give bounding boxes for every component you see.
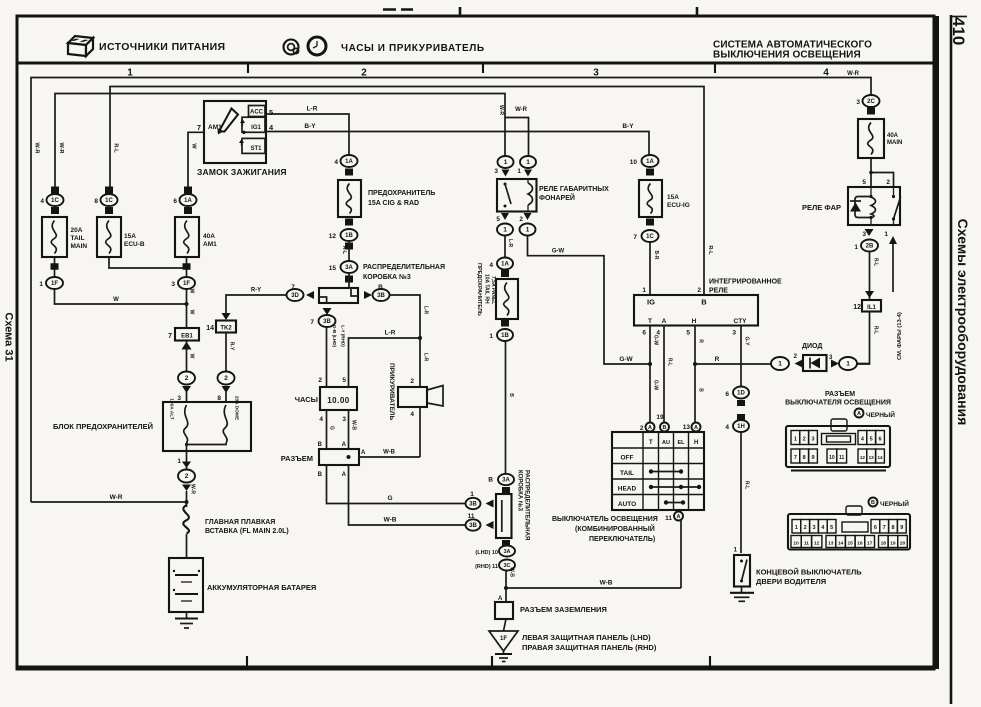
svg-text:R: R	[715, 356, 720, 363]
svg-text:А: А	[857, 411, 861, 417]
wire W-R top bus A	[31, 78, 871, 503]
door switch box	[734, 555, 750, 587]
svg-text:6: 6	[642, 330, 646, 337]
svg-text:3: 3	[342, 416, 346, 423]
svg-text:12: 12	[329, 233, 337, 240]
svg-text:(LHD) 10: (LHD) 10	[475, 550, 498, 556]
wire to fusible link	[186, 491, 188, 507]
svg-text:L-R: L-R	[307, 106, 318, 113]
svg-text:2: 2	[804, 525, 807, 531]
parking lamps relay box	[497, 179, 537, 212]
junction dot ecub-am1	[185, 266, 189, 270]
svg-text:1: 1	[526, 227, 530, 234]
svg-text:R: R	[698, 339, 704, 343]
wire IL1 to diode	[855, 312, 870, 365]
svg-text:3: 3	[732, 330, 736, 337]
wire tail top bus C	[55, 94, 505, 195]
svg-text:A: A	[694, 425, 698, 431]
fuse 10A TAIL RH box	[496, 279, 518, 319]
svg-text:CTY: CTY	[734, 318, 748, 325]
svg-text:OFF: OFF	[621, 455, 634, 462]
top frame dash a	[383, 8, 396, 11]
svg-text:L-Y (RHD): L-Y (RHD)	[341, 325, 346, 347]
svg-text:9: 9	[900, 525, 903, 531]
svg-text:A: A	[662, 318, 667, 325]
svg-text:AUTO: AUTO	[618, 501, 636, 508]
top frame dash b	[401, 8, 413, 11]
svg-text:1B: 1B	[501, 333, 509, 339]
battery plates	[175, 574, 198, 576]
connector 1-2B oval	[861, 240, 878, 252]
diode D1 box	[803, 355, 827, 371]
svg-text:H: H	[694, 440, 698, 446]
svg-text:5: 5	[830, 525, 833, 531]
svg-text:R-L: R-L	[744, 481, 750, 489]
svg-text:3D: 3D	[291, 293, 299, 299]
svg-text:2: 2	[185, 473, 189, 480]
svg-text:3: 3	[812, 525, 815, 531]
wire to ground connector	[505, 571, 507, 603]
lighter cone	[427, 386, 443, 407]
svg-text:W-R: W-R	[498, 105, 504, 115]
connector 6-1D oval	[733, 387, 749, 399]
svg-text:2: 2	[410, 378, 414, 385]
svg-text:1C: 1C	[51, 198, 59, 204]
svg-text:3: 3	[856, 99, 860, 106]
svg-text:1: 1	[503, 227, 507, 234]
svg-text:6: 6	[173, 198, 177, 205]
parking relay oval pin1	[520, 156, 536, 168]
svg-text:3A: 3A	[345, 265, 353, 271]
junction dot LR	[418, 336, 422, 340]
svg-text:G-Y: G-Y	[744, 337, 750, 347]
svg-text:B: B	[698, 388, 704, 392]
svg-text:ПРИКУРИВАТЕЛЬ: ПРИКУРИВАТЕЛЬ	[388, 363, 395, 420]
ignition ST1 pin box	[242, 138, 265, 153]
table auto row contact	[666, 502, 683, 504]
connector 3-1F oval	[178, 277, 195, 289]
svg-text:КОРОБКА №3: КОРОБКА №3	[517, 470, 524, 512]
svg-text:1: 1	[794, 437, 797, 443]
svg-text:1: 1	[489, 333, 493, 340]
svg-text:ЧАСЫ: ЧАСЫ	[295, 395, 318, 404]
connector B black label	[869, 498, 878, 507]
svg-text:G-W: G-W	[653, 380, 659, 391]
svg-text:15A: 15A	[667, 194, 679, 201]
svg-text:ИНТЕГРИРОВАННОЕ: ИНТЕГРИРОВАННОЕ	[709, 279, 782, 286]
svg-text:14: 14	[838, 540, 844, 546]
svg-text:10: 10	[829, 455, 835, 461]
svg-text:ПЕРЕКЛЮЧАТЕЛЬ): ПЕРЕКЛЮЧАТЕЛЬ)	[589, 536, 655, 543]
wire AM1 to fuse	[188, 132, 204, 194]
fuse block internal link	[187, 443, 227, 445]
svg-text:W-R: W-R	[110, 494, 123, 501]
svg-text:БЛОК ПРЕДОХРАНИТЕЛЕЙ: БЛОК ПРЕДОХРАНИТЕЛЕЙ	[53, 422, 153, 431]
svg-text:6: 6	[725, 391, 729, 398]
wire clock pin3 down	[348, 410, 350, 449]
svg-text:W-R: W-R	[190, 484, 196, 494]
svg-text:A: A	[342, 442, 347, 448]
connector 4-1A oval cig	[341, 155, 358, 167]
svg-text:TAIL: TAIL	[71, 235, 85, 242]
svg-text:2: 2	[886, 179, 890, 186]
wire 1B to 3A	[348, 241, 350, 261]
svg-text:ACC: ACC	[250, 110, 264, 116]
svg-text:W-R: W-R	[515, 107, 528, 113]
wire W-R bottom link	[31, 501, 187, 503]
svg-text:20A: 20A	[71, 227, 83, 234]
svg-text:8: 8	[94, 198, 98, 205]
svg-text:СМ. ФАРЫ (13-4): СМ. ФАРЫ (13-4)	[897, 312, 903, 360]
svg-text:4: 4	[725, 424, 729, 431]
svg-text:G-W: G-W	[653, 335, 659, 346]
svg-text:13: 13	[869, 455, 875, 460]
light switch table	[612, 432, 704, 510]
svg-text:W: W	[189, 289, 195, 294]
connector 8-1C oval	[105, 187, 113, 194]
svg-text:B: B	[318, 472, 323, 478]
wire CTY down	[740, 326, 742, 387]
ignition IG1 pin box	[242, 117, 265, 132]
svg-text:12: 12	[814, 540, 820, 546]
svg-text:4: 4	[319, 416, 323, 423]
svg-text:16: 16	[857, 540, 863, 546]
wire into fuse block right	[225, 392, 227, 402]
svg-text:19: 19	[890, 540, 896, 546]
svg-text:КОНЦЕВОЙ ВЫКЛЮЧАТЕЛЬ: КОНЦЕВОЙ ВЫКЛЮЧАТЕЛЬ	[756, 568, 862, 577]
svg-text:R-Y: R-Y	[229, 342, 235, 351]
battery feed oval 2	[182, 462, 191, 469]
svg-text:В: В	[871, 500, 875, 506]
svg-text:410: 410	[949, 17, 968, 45]
battery header icon	[68, 36, 93, 56]
connector 7-1C oval	[646, 219, 654, 226]
svg-text:1: 1	[795, 525, 798, 531]
svg-text:11: 11	[839, 455, 845, 461]
svg-text:ЧАСЫ И ПРИКУРИВАТЕЛЬ: ЧАСЫ И ПРИКУРИВАТЕЛЬ	[341, 43, 485, 54]
page separator line	[950, 15, 953, 704]
svg-text:18: 18	[881, 540, 887, 546]
ruler tick b	[482, 64, 484, 73]
wire R to diode	[695, 363, 771, 365]
svg-text:20: 20	[900, 540, 906, 546]
svg-text:2: 2	[318, 377, 322, 384]
connector B cells row1	[792, 520, 801, 534]
svg-text:3B: 3B	[377, 293, 385, 299]
svg-text:W: W	[113, 297, 119, 303]
svg-text:3B: 3B	[469, 502, 477, 508]
svg-text:11: 11	[804, 540, 809, 546]
svg-text:W-B: W-B	[600, 580, 613, 587]
svg-text:13: 13	[683, 424, 691, 431]
battery ground	[186, 612, 188, 618]
svg-text:R-L: R-L	[341, 246, 347, 254]
svg-text:ПРАВАЯ ЗАЩИТНАЯ ПАНЕЛЬ (RHD): ПРАВАЯ ЗАЩИТНАЯ ПАНЕЛЬ (RHD)	[522, 643, 657, 652]
clock header icon	[308, 37, 326, 55]
wire square to panel triangle	[504, 619, 507, 631]
svg-text:19: 19	[656, 414, 664, 421]
svg-text:3: 3	[811, 437, 814, 443]
headlight relay box	[848, 187, 900, 225]
distribution box 3 lower	[496, 494, 512, 538]
svg-text:8: 8	[891, 525, 894, 531]
svg-text:15A: 15A	[124, 233, 136, 240]
connector 4-1H oval	[733, 420, 749, 432]
svg-text:КОРОБКА №3: КОРОБКА №3	[363, 273, 411, 281]
wire 3B to lighter drop	[389, 295, 421, 387]
wire 3A into box	[348, 273, 350, 288]
wire EB1 to fuse block	[186, 341, 188, 372]
svg-text:15: 15	[329, 265, 337, 272]
headlight relay coil	[871, 197, 876, 218]
ruler tick a	[247, 64, 249, 73]
svg-text:40A: 40A	[887, 133, 899, 139]
svg-text:HEAD: HEAD	[618, 486, 637, 493]
svg-text:T: T	[648, 318, 652, 325]
svg-text:3: 3	[862, 231, 866, 238]
arrow below oval2L	[182, 386, 191, 393]
svg-text:7: 7	[168, 333, 172, 340]
svg-text:8: 8	[803, 455, 806, 461]
svg-text:13: 13	[828, 540, 834, 546]
connector 4-1A tail oval	[497, 258, 513, 270]
wire fuse main to relay	[870, 158, 872, 187]
svg-text:ПРЕДОХРАНИТЕЛЬ: ПРЕДОХРАНИТЕЛЬ	[368, 190, 435, 197]
connector 12-1B oval	[345, 219, 353, 226]
svg-text:B: B	[663, 425, 667, 431]
junction dot battery bus	[185, 500, 189, 504]
svg-text:РАСПРЕДЕЛИТЕЛЬНАЯ: РАСПРЕДЕЛИТЕЛЬНАЯ	[363, 264, 445, 271]
connector 7-3B oval below	[323, 308, 332, 315]
connector A cells row2	[791, 449, 800, 463]
svg-text:1B: 1B	[345, 233, 353, 239]
wire AM1 fuse down	[186, 257, 188, 277]
svg-text:2B: 2B	[866, 244, 874, 250]
wire R-Y horizontal	[226, 295, 286, 313]
svg-text:1: 1	[504, 159, 508, 166]
arrow into TK2	[222, 313, 231, 320]
svg-text:ST1: ST1	[250, 146, 262, 152]
svg-text:10.00: 10.00	[327, 396, 350, 405]
svg-text:5: 5	[496, 216, 500, 223]
svg-text:РАЗЪЕМ ЗАЗЕМЛЕНИЯ: РАЗЪЕМ ЗАЗЕМЛЕНИЯ	[520, 605, 607, 614]
svg-text:12: 12	[860, 455, 866, 460]
bottom tick c	[709, 656, 711, 668]
svg-text:B: B	[318, 442, 323, 448]
svg-text:ВЫКЛЮЧАТЕЛЯ ОСВЕЩЕНИЯ: ВЫКЛЮЧАТЕЛЯ ОСВЕЩЕНИЯ	[785, 400, 891, 407]
fuse 15A ECU-IG box	[639, 180, 662, 217]
svg-text:R-L: R-L	[873, 258, 879, 266]
svg-text:3A: 3A	[503, 549, 510, 555]
svg-text:W-B: W-B	[383, 450, 396, 456]
arrow into EB1	[182, 342, 192, 350]
connector 1-1B tail oval	[501, 320, 509, 327]
svg-text:4: 4	[489, 262, 493, 269]
svg-text:7: 7	[633, 234, 637, 241]
svg-text:10A TAIL RH: 10A TAIL RH	[484, 274, 490, 304]
svg-text:1A: 1A	[646, 159, 654, 165]
arrow below relay pin3	[865, 229, 874, 236]
svg-text:ФОНАРЕЙ: ФОНАРЕЙ	[539, 193, 575, 202]
svg-text:ИСТОЧНИКИ ПИТАНИЯ: ИСТОЧНИКИ ПИТАНИЯ	[99, 41, 225, 53]
svg-text:1: 1	[526, 159, 530, 166]
arrow below oval2R	[222, 386, 231, 393]
door switch contact	[740, 560, 743, 563]
svg-text:2: 2	[224, 375, 228, 382]
svg-text:7: 7	[883, 525, 886, 531]
svg-text:3B: 3B	[469, 523, 477, 529]
wire to headlights arrow	[892, 243, 894, 292]
wire A pin down	[663, 326, 665, 423]
svg-text:1C: 1C	[105, 198, 113, 204]
frame right inner line	[934, 16, 939, 669]
svg-text:B: B	[508, 393, 514, 397]
wire clock pin4 down	[326, 410, 328, 449]
svg-text:12: 12	[853, 304, 861, 311]
connector 15-3A oval	[341, 261, 358, 273]
battery box	[169, 558, 203, 612]
svg-text:ECU-B: ECU-B	[124, 241, 145, 248]
svg-text:ВЫКЛЮЧАТЕЛЬ ОСВЕЩЕНИЯ: ВЫКЛЮЧАТЕЛЬ ОСВЕЩЕНИЯ	[552, 516, 658, 523]
svg-text:G-B (LHD): G-B (LHD)	[332, 325, 337, 348]
lighter header icon	[284, 40, 299, 55]
wire B down to 3A	[505, 341, 507, 474]
svg-text:ECU-IG: ECU-IG	[667, 202, 690, 209]
svg-text:15: 15	[848, 540, 854, 546]
svg-text:10: 10	[793, 540, 799, 546]
svg-text:ЧЕРНЫЙ: ЧЕРНЫЙ	[866, 410, 895, 419]
svg-text:W-B: W-B	[384, 517, 397, 524]
svg-text:TK2: TK2	[220, 326, 232, 332]
svg-text:40A: 40A	[203, 233, 215, 240]
connector 3-2C oval	[863, 95, 880, 107]
svg-text:G: G	[329, 426, 335, 430]
svg-text:W-B: W-B	[509, 567, 515, 577]
svg-text:1A: 1A	[501, 262, 509, 268]
svg-text:1: 1	[177, 458, 181, 465]
wire W-B switch ground run	[506, 587, 681, 589]
connector A black label	[855, 409, 864, 418]
svg-text:B-Y: B-Y	[304, 123, 316, 130]
connector oval 2 right	[218, 372, 235, 385]
svg-text:L-R: L-R	[423, 306, 429, 315]
panel triangle 1F	[489, 631, 518, 651]
bottom tick b	[491, 656, 493, 668]
svg-text:B: B	[488, 477, 493, 484]
svg-text:MAIN: MAIN	[887, 140, 902, 146]
fusible link FL MAIN symbol	[183, 505, 189, 534]
svg-text:(КОМБИНИРОВАННЫЙ: (КОМБИНИРОВАННЫЙ	[575, 524, 655, 533]
integrated relay box	[634, 295, 758, 326]
fuse 40A MAIN box	[858, 119, 884, 158]
svg-text:B-Y: B-Y	[622, 123, 634, 130]
svg-text:5: 5	[342, 377, 346, 384]
wire diode oval to riser	[857, 363, 870, 365]
fuse block box	[163, 402, 251, 451]
parking relay oval pin3	[498, 156, 514, 168]
fuse 20A DOME element	[223, 405, 227, 443]
connector 4-1C oval	[51, 187, 59, 194]
wire fuse1 down to 1F	[54, 257, 56, 277]
ruler tick c	[714, 64, 716, 73]
svg-text:14: 14	[206, 325, 214, 332]
svg-text:MAIN: MAIN	[71, 243, 88, 250]
svg-text:1: 1	[854, 244, 858, 251]
square below lower box	[502, 540, 510, 546]
svg-text:Схема 31: Схема 31	[3, 312, 15, 361]
svg-text:ЧЕРНЫЙ: ЧЕРНЫЙ	[880, 499, 909, 508]
svg-text:1F: 1F	[500, 636, 507, 642]
svg-text:(RHD) 11: (RHD) 11	[475, 564, 498, 570]
fuse 100A ALT element	[184, 405, 188, 443]
svg-text:10: 10	[630, 159, 638, 166]
svg-text:17: 17	[867, 540, 873, 546]
panel ground symbol	[503, 651, 505, 654]
ignition switch U1 box	[204, 101, 266, 163]
svg-text:1D: 1D	[737, 391, 745, 397]
wire 1F down to EB1	[186, 289, 188, 328]
svg-text:5: 5	[269, 108, 273, 117]
svg-text:G-W: G-W	[552, 249, 565, 255]
frame bottom thick	[17, 666, 934, 671]
svg-text:4: 4	[334, 159, 338, 166]
svg-text:6: 6	[878, 437, 881, 443]
svg-text:2C: 2C	[867, 99, 875, 105]
svg-text:1: 1	[884, 231, 888, 238]
svg-text:R-Y: R-Y	[251, 288, 261, 294]
connector B cells row2	[791, 536, 801, 548]
svg-text:7: 7	[197, 123, 201, 132]
diode right oval	[839, 357, 857, 370]
bottom tick a	[246, 656, 248, 668]
fuse F1 20A TAIL MAIN box	[42, 217, 67, 257]
ignition key glyph	[219, 109, 238, 132]
svg-text:W-B: W-B	[351, 420, 357, 430]
page top right stub	[951, 16, 967, 18]
arrow into IL1	[865, 291, 874, 298]
door switch ground	[741, 587, 743, 593]
svg-text:2: 2	[185, 375, 189, 382]
svg-text:R-L: R-L	[113, 143, 119, 153]
svg-text:R-L: R-L	[667, 358, 673, 366]
headlight relay diode loop	[855, 197, 871, 218]
svg-text:ЛЕВАЯ ЗАЩИТНАЯ ПАНЕЛЬ (LHD): ЛЕВАЯ ЗАЩИТНАЯ ПАНЕЛЬ (LHD)	[522, 633, 651, 642]
svg-text:W: W	[189, 310, 195, 315]
ignition ACC pin box	[249, 106, 266, 117]
wire G-W from parking relay	[528, 236, 651, 365]
wire into fuse block left	[186, 392, 188, 402]
wire H pin down	[694, 326, 696, 423]
wire razem B down to G run	[327, 465, 466, 504]
fuse F2 15A ECU-B box	[97, 217, 121, 257]
svg-text:H: H	[692, 318, 697, 325]
svg-text:IL1: IL1	[867, 305, 876, 311]
connector 10-1A oval	[642, 155, 659, 167]
svg-text:Схемы электрооборудования: Схемы электрооборудования	[955, 219, 971, 426]
wire 1H to door switch	[740, 432, 742, 553]
wire IG1 B-Y	[265, 132, 649, 156]
svg-text:W-R: W-R	[847, 71, 860, 77]
svg-text:ЗАМОК ЗАЖИГАНИЯ: ЗАМОК ЗАЖИГАНИЯ	[197, 167, 287, 177]
wire 2B to IL1	[869, 252, 871, 301]
svg-text:9: 9	[811, 455, 814, 461]
connector oval 2 left	[178, 372, 195, 385]
svg-text:АККУМУЛЯТОРНАЯ БАТАРЕЯ: АККУМУЛЯТОРНАЯ БАТАРЕЯ	[207, 583, 316, 592]
wire razem W-B right	[359, 456, 420, 458]
svg-text:2: 2	[697, 287, 701, 294]
svg-text:3: 3	[171, 281, 175, 288]
svg-text:1H: 1H	[737, 424, 745, 430]
